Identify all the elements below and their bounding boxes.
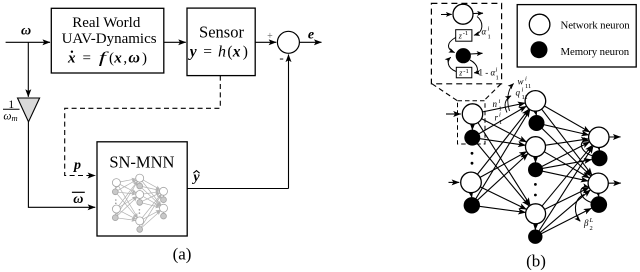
svg-text:α: α: [482, 27, 487, 37]
svg-text:i: i: [525, 76, 527, 83]
svg-text:1: 1: [499, 119, 502, 126]
svg-text:2: 2: [590, 225, 593, 232]
svg-text:1: 1: [496, 75, 499, 82]
svg-text:ω: ω: [73, 192, 83, 207]
svg-text:(a): (a): [173, 245, 192, 264]
svg-text:ω: ω: [21, 24, 31, 39]
svg-text:q: q: [516, 88, 521, 98]
svg-text:Network neuron: Network neuron: [561, 20, 631, 32]
svg-text:n: n: [493, 99, 498, 109]
svg-text:Real World: Real World: [72, 15, 141, 31]
svg-text:i: i: [522, 87, 524, 94]
svg-text:Sensor: Sensor: [199, 22, 244, 41]
svg-text:i: i: [499, 98, 501, 105]
svg-text:UAV-Dynamics: UAV-Dynamics: [62, 31, 157, 47]
svg-text:-: -: [279, 50, 283, 65]
svg-text:11: 11: [525, 83, 531, 90]
svg-text:e: e: [308, 27, 314, 42]
svg-text:i: i: [496, 67, 498, 74]
svg-text:β: β: [583, 218, 589, 228]
svg-text:r: r: [495, 113, 499, 123]
svg-text:p: p: [73, 158, 81, 173]
svg-text:-1: -1: [463, 30, 468, 37]
svg-text:-1: -1: [463, 68, 468, 75]
svg-text:11: 11: [522, 94, 528, 101]
svg-text:i: i: [488, 26, 490, 33]
svg-text:1 - α: 1 - α: [479, 68, 496, 78]
svg-text:i: i: [499, 112, 501, 119]
svg-text:1: 1: [488, 34, 491, 41]
svg-text:L: L: [589, 217, 594, 224]
svg-text:SN-MNN: SN-MNN: [109, 153, 174, 172]
svg-text:Memory neuron: Memory neuron: [561, 46, 630, 58]
svg-text:w: w: [518, 77, 524, 87]
svg-text:(b): (b): [526, 252, 546, 271]
svg-text:ωm: ωm: [3, 111, 17, 124]
svg-text:+: +: [267, 31, 273, 42]
